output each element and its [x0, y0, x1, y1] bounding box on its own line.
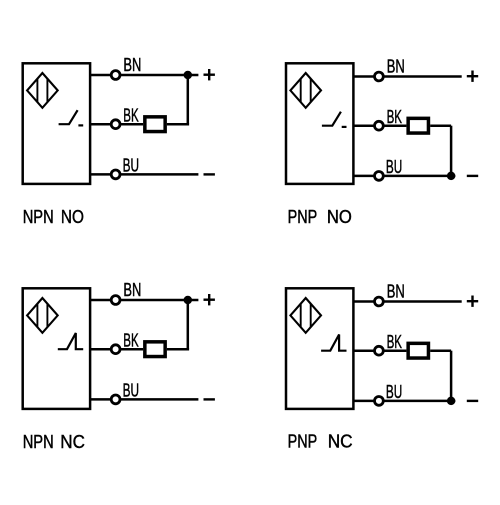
- caption PNP NC: [288, 430, 353, 451]
- junction dot on BN line NPN NO: [184, 71, 193, 80]
- wire body to terminal BK NPN NC: [90, 348, 111, 351]
- svg-text:BN: BN: [123, 54, 141, 75]
- terminal BK PNP NC: [375, 346, 384, 355]
- switch contact NO PNP NO: [322, 112, 347, 127]
- wire body to terminal BK NPN NO: [90, 123, 111, 126]
- load resistor NPN NC: [145, 342, 165, 357]
- wire body to terminal BN PNP NO: [353, 75, 374, 78]
- svg-text:NO: NO: [327, 206, 352, 227]
- wire body to terminal BU NPN NO: [90, 173, 111, 176]
- svg-text:BU: BU: [123, 155, 139, 176]
- + supply terminal PNP NO: [467, 71, 478, 82]
- terminal BN PNP NC: [375, 297, 384, 306]
- wire BN terminal to + supply PNP NO: [384, 75, 462, 78]
- wire junction down to BU line PNP NO: [450, 126, 453, 176]
- wire body to terminal BU NPN NC: [90, 398, 111, 401]
- load resistor NPN NO: [145, 117, 165, 132]
- svg-text:BK: BK: [387, 106, 402, 127]
- svg-text:BU: BU: [123, 380, 139, 401]
- - supply terminal PNP NC: [467, 400, 478, 402]
- terminal BN NPN NC: [111, 296, 120, 305]
- terminal BK NPN NC: [111, 345, 120, 354]
- + supply terminal NPN NC: [204, 294, 215, 305]
- svg-text:BN: BN: [123, 279, 141, 300]
- terminal BU PNP NC: [375, 397, 384, 406]
- proximity sensor symbol (diamond) PNP NO: [290, 73, 321, 108]
- - supply terminal PNP NO: [467, 175, 478, 177]
- load resistor PNP NO: [408, 118, 428, 133]
- wire load to junction PNP NC: [430, 349, 451, 352]
- terminal BK PNP NO: [375, 121, 384, 130]
- junction dot on BU line PNP NO: [447, 172, 456, 181]
- sensor body PNP NC: [286, 288, 353, 409]
- wire BK terminal to load NPN NO: [120, 123, 143, 126]
- wire BU terminal to - supply PNP NO: [384, 175, 456, 178]
- svg-text:PNP: PNP: [288, 206, 318, 227]
- load resistor PNP NC: [408, 343, 428, 358]
- junction dot on BN line NPN NC: [184, 296, 193, 305]
- sensor body NPN NC: [23, 288, 90, 409]
- svg-text:BU: BU: [386, 156, 402, 177]
- - supply terminal NPN NO: [204, 173, 215, 175]
- switch contact NC NPN NC: [58, 333, 83, 349]
- svg-text:BN: BN: [387, 55, 405, 76]
- caption NPN NO: [23, 206, 84, 227]
- wire body to terminal BN NPN NO: [90, 74, 111, 77]
- svg-text:NC: NC: [60, 431, 85, 452]
- wire BK terminal to load NPN NC: [120, 348, 143, 351]
- wire junction down to load NPN NO: [187, 75, 190, 124]
- proximity sensor symbol (diamond) NPN NO: [27, 73, 58, 108]
- + supply terminal PNP NC: [467, 296, 478, 307]
- wire BU terminal to - supply PNP NC: [384, 400, 456, 403]
- terminal BU NPN NO: [111, 170, 120, 179]
- wire BU terminal to - supply NPN NC: [120, 398, 198, 401]
- caption PNP NO: [288, 206, 352, 227]
- svg-text:NPN: NPN: [23, 431, 54, 452]
- wire BK terminal to load PNP NC: [384, 349, 407, 352]
- svg-text:BK: BK: [387, 331, 402, 352]
- sensor body PNP NO: [286, 63, 353, 184]
- svg-text:BK: BK: [123, 104, 138, 125]
- wire load to junction NPN NC: [167, 348, 189, 351]
- wire BK terminal to load PNP NO: [384, 124, 407, 127]
- terminal BK NPN NO: [111, 120, 120, 129]
- proximity sensor symbol (diamond) PNP NC: [290, 298, 321, 333]
- wire load to junction PNP NO: [430, 124, 451, 127]
- svg-text:NPN: NPN: [23, 206, 54, 227]
- sensor body NPN NO: [23, 63, 90, 184]
- wire BU terminal to - supply NPN NO: [120, 173, 198, 176]
- svg-text:NC: NC: [328, 430, 353, 451]
- wire BN terminal to + supply PNP NC: [384, 300, 462, 303]
- junction dot on BU line PNP NC: [447, 397, 456, 406]
- wire body to terminal BN NPN NC: [90, 299, 111, 302]
- wire junction down to BU line PNP NC: [450, 351, 453, 401]
- svg-text:PNP: PNP: [288, 430, 318, 451]
- terminal BN PNP NO: [375, 72, 384, 81]
- switch contact NO NPN NO: [59, 110, 84, 125]
- wire load to junction NPN NO: [167, 123, 189, 126]
- wire body to terminal BU PNP NC: [353, 400, 374, 403]
- wire body to terminal BK PNP NC: [353, 349, 374, 352]
- svg-text:BK: BK: [123, 329, 138, 350]
- terminal BU PNP NO: [375, 172, 384, 181]
- wire body to terminal BN PNP NC: [353, 300, 374, 303]
- switch contact NC PNP NC: [321, 335, 346, 351]
- svg-text:BU: BU: [386, 381, 402, 402]
- proximity sensor symbol (diamond) NPN NC: [27, 298, 58, 333]
- svg-text:BN: BN: [387, 280, 405, 301]
- terminal BN NPN NO: [111, 71, 120, 80]
- wire BN terminal to + supply NPN NO: [120, 74, 198, 77]
- caption NPN NC: [23, 431, 85, 452]
- + supply terminal NPN NO: [204, 69, 215, 80]
- svg-text:NO: NO: [61, 206, 84, 227]
- - supply terminal NPN NC: [204, 398, 215, 400]
- wire BN terminal to + supply NPN NC: [120, 299, 198, 302]
- terminal BU NPN NC: [111, 395, 120, 404]
- wire junction down to load NPN NC: [187, 300, 190, 349]
- wire body to terminal BK PNP NO: [353, 124, 374, 127]
- wire body to terminal BU PNP NO: [353, 175, 374, 178]
